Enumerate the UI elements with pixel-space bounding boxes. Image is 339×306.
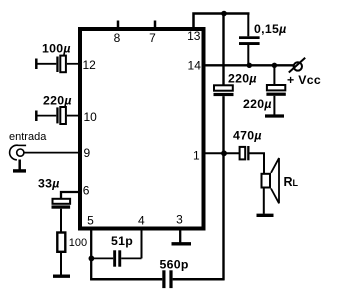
- pin 4 label: [138, 213, 145, 227]
- svg-text:560p: 560p: [160, 258, 189, 272]
- wire speaker to ground: [263, 189, 265, 214]
- svg-text:RL: RL: [284, 175, 299, 189]
- capacitor 100µ (pin 12 input, electrolytic): [36, 56, 80, 73]
- pin 12 label: [83, 58, 97, 72]
- node junction pin 5 / 51p: [89, 256, 95, 262]
- wire 470µ to speaker: [250, 153, 265, 173]
- wire 51p up to pin 4: [141, 228, 143, 258]
- pin 3 label: [176, 213, 183, 227]
- node junction 0,15µ on supply line: [247, 63, 252, 68]
- value label 220µ (bootstrap): [228, 72, 257, 86]
- wire resistor to ground: [60, 252, 62, 275]
- svg-text:12: 12: [83, 58, 97, 72]
- svg-text:4: 4: [138, 213, 145, 227]
- wire 33µ to resistor: [60, 209, 62, 232]
- svg-text:13: 13: [187, 29, 201, 43]
- pin 9 label: [84, 146, 91, 160]
- pin 14 label: [188, 58, 202, 72]
- svg-text:6: 6: [83, 183, 90, 197]
- value label 220µ (pin 10): [43, 94, 72, 108]
- ground (decoupling cap): [265, 114, 284, 117]
- svg-text:14: 14: [188, 58, 202, 72]
- value label 100: [69, 237, 87, 249]
- load label RL: [284, 175, 299, 189]
- pin 7 label: [149, 31, 156, 45]
- capacitor 470µ (output coupling, electrolytic): [240, 146, 250, 160]
- svg-text:entrada: entrada: [9, 131, 47, 143]
- value label 0,15µ: [254, 22, 287, 36]
- capacitor 560p: [162, 270, 172, 288]
- wire pin 13 to top rail: [194, 14, 250, 29]
- node junction on top rail: [221, 11, 227, 17]
- wire pin 5 down to bottom rail: [90, 228, 92, 280]
- wire top rail down to bootstrap cap: [222, 14, 224, 87]
- ground (input jack): [13, 160, 26, 171]
- wire bootstrap cap down to pin 1 line and bottom rail: [222, 96, 224, 280]
- net label entrada: [9, 131, 47, 143]
- svg-text:220µ: 220µ: [228, 72, 257, 86]
- resistor 100: [57, 233, 65, 252]
- svg-text:9: 9: [84, 146, 91, 160]
- capacitor 51p: [91, 250, 141, 266]
- value label 51p: [111, 234, 133, 248]
- capacitor 33µ (electrolytic): [52, 199, 71, 209]
- value label 220µ (decoupling): [243, 97, 272, 111]
- svg-text:7: 7: [149, 31, 156, 45]
- input jack (entrada): [10, 145, 27, 160]
- value label 33µ: [38, 177, 60, 191]
- pin 10 label: [84, 110, 98, 124]
- ground (pin 3): [172, 228, 192, 244]
- net label + Vcc: [287, 73, 321, 87]
- capacitor 220µ (bootstrap, electrolytic): [214, 85, 234, 96]
- wire pin 1 output line: [204, 152, 240, 154]
- node junction 220µ decoupling on supply line: [272, 63, 277, 68]
- capacitor 220µ (supply decoupling, electrolytic): [266, 65, 285, 114]
- wire pin 6 to 33µ cap: [61, 192, 80, 199]
- capacitor 220µ (pin 10 input, electrolytic): [36, 107, 80, 124]
- pin 13 label: [187, 29, 201, 43]
- pin 5 label: [87, 213, 94, 227]
- speaker RL: [262, 158, 280, 203]
- svg-text:1: 1: [193, 149, 200, 163]
- svg-text:8: 8: [114, 31, 121, 45]
- ground (resistor): [53, 275, 70, 278]
- pin 7 tick: [154, 21, 157, 29]
- svg-text:100µ: 100µ: [42, 42, 71, 56]
- svg-text:51p: 51p: [111, 234, 133, 248]
- svg-text:220µ: 220µ: [243, 97, 272, 111]
- value label 470µ: [233, 129, 262, 143]
- wire bottom rail left segment: [90, 278, 162, 281]
- svg-text:100: 100: [69, 237, 87, 249]
- ground (speaker): [257, 214, 274, 217]
- value label 100µ: [42, 42, 71, 56]
- op-amp U1 (amplifier IC body): [80, 29, 204, 229]
- node junction pin 1 / vertical rail: [221, 150, 227, 156]
- capacitor 0,15µ: [239, 14, 260, 66]
- svg-text:220µ: 220µ: [43, 94, 72, 108]
- svg-text:3: 3: [176, 213, 183, 227]
- pin 1 label: [193, 149, 200, 163]
- svg-text:+ Vcc: + Vcc: [287, 73, 321, 87]
- pin 6 label: [83, 183, 90, 197]
- svg-text:470µ: 470µ: [233, 129, 262, 143]
- value label 560p: [160, 258, 189, 272]
- svg-text:10: 10: [84, 110, 98, 124]
- wire pin 14 supply line: [204, 64, 294, 66]
- pin 8 label: [114, 31, 121, 45]
- Vcc terminal symbol: [289, 58, 305, 73]
- wire bottom rail right segment: [173, 278, 225, 281]
- wire input to pin 9: [24, 152, 80, 154]
- svg-text:33µ: 33µ: [38, 177, 60, 191]
- svg-text:0,15µ: 0,15µ: [254, 22, 287, 36]
- pin 8 tick: [117, 21, 120, 29]
- svg-text:5: 5: [87, 213, 94, 227]
